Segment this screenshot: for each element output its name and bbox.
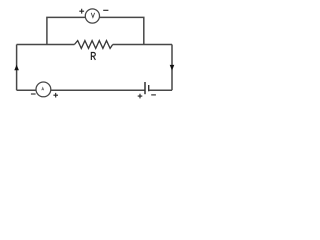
resistor R [74,41,112,49]
voltmeter letter V [91,13,94,18]
ammeter A1 [36,82,51,97]
voltmeter minus label [103,9,108,11]
arrow up on left wire [14,65,19,71]
battery minus label [151,94,156,96]
wire top-left horizontal [17,44,75,46]
wire voltmeter loop left stub [47,17,85,44]
wire bottom middle segment [51,89,145,91]
voltmeter V1 [85,9,99,23]
ammeter letter A [42,88,44,91]
wire right vertical [171,45,173,91]
wire left vertical [16,45,18,91]
battery negative plate [148,85,150,91]
wire voltmeter loop right stub [100,17,144,44]
wire bottom left segment [17,89,37,91]
battery positive plate [144,82,146,94]
ammeter plus label [53,93,58,98]
ammeter minus label [31,93,36,95]
arrow down on right wire [170,65,175,71]
wire bottom right segment [149,89,172,91]
label R [91,53,95,60]
voltmeter plus label [79,9,84,14]
battery plus label [138,94,143,99]
wire top-right horizontal [113,44,172,46]
